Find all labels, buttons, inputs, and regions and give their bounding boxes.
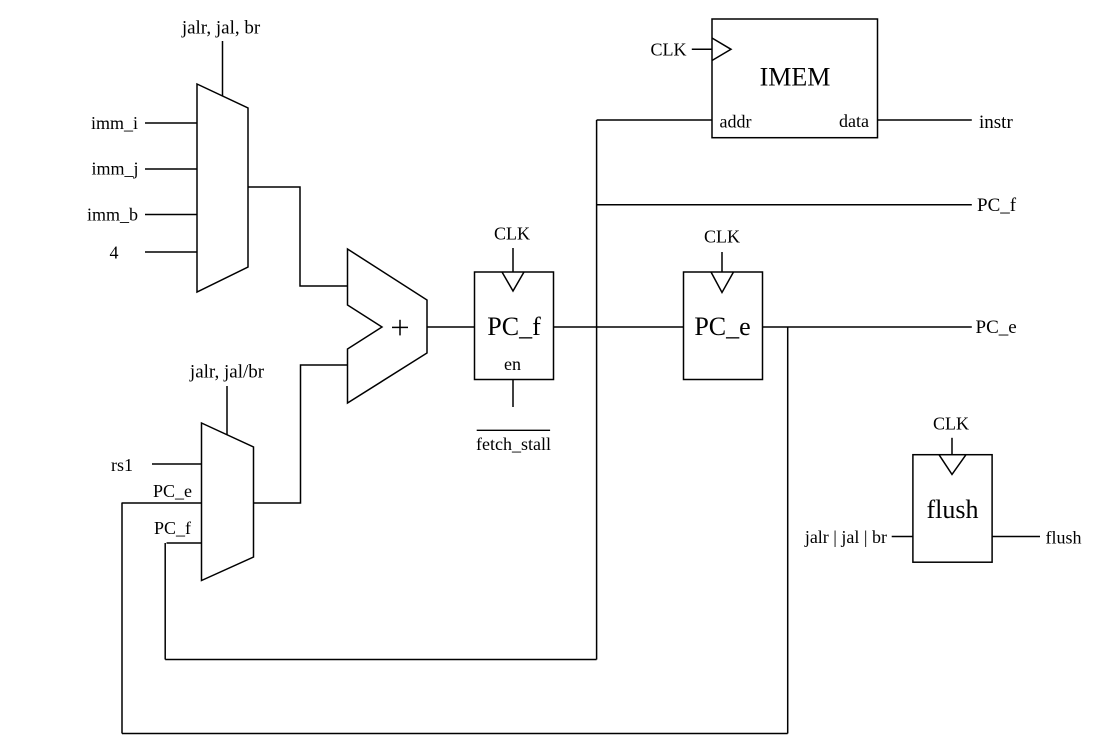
svg-text:CLK: CLK bbox=[494, 224, 530, 244]
memory IMEM box bbox=[712, 19, 878, 138]
wire constant-4 input stub bbox=[145, 251, 197, 253]
svg-text:jalr, jal, br: jalr, jal, br bbox=[181, 18, 261, 39]
wire CLK to IMEM bbox=[692, 48, 712, 50]
adder U1 bbox=[348, 249, 428, 403]
wire PC_f feedback bottom horizontal bbox=[165, 659, 596, 661]
svg-text:4: 4 bbox=[110, 243, 119, 263]
mux M1 (immediate select mux) bbox=[197, 84, 248, 292]
svg-text:PC_e: PC_e bbox=[153, 481, 192, 501]
svg-text:jalr, jal/br: jalr, jal/br bbox=[189, 362, 265, 383]
fetch_stall overline bbox=[477, 429, 550, 431]
register flush box bbox=[913, 455, 992, 563]
wire en input below PC_f bbox=[512, 380, 514, 408]
svg-text:imm_j: imm_j bbox=[91, 159, 138, 179]
adder plus sign vertical stroke bbox=[399, 320, 401, 336]
svg-text:rs1: rs1 bbox=[111, 455, 133, 475]
wire jalr|jal|br input to flush bbox=[892, 536, 913, 538]
wire PC_f register output to PC_e register input bbox=[554, 326, 684, 328]
register PC_e box bbox=[684, 272, 763, 380]
wire CLK to flush bbox=[951, 438, 953, 455]
wire M2 output to adder bottom input bbox=[254, 365, 348, 503]
wire M1 output to adder top input bbox=[248, 187, 348, 286]
wire PC_f net to IMEM addr bbox=[597, 119, 712, 121]
register PC_e clock notch bbox=[711, 272, 734, 293]
svg-text:PC_f: PC_f bbox=[154, 518, 191, 538]
svg-text:addr: addr bbox=[720, 112, 752, 132]
wire CLK to PC_f bbox=[512, 248, 514, 272]
svg-text:imm_b: imm_b bbox=[87, 205, 138, 225]
wire adder output to PC_f register bbox=[427, 326, 475, 328]
wire M2 select (jalr, jal/br) bbox=[226, 386, 228, 435]
wire imm_j input stub bbox=[145, 168, 197, 170]
wire CLK to PC_e bbox=[721, 252, 723, 272]
wire imm_b input stub bbox=[145, 214, 197, 216]
register flush clock notch bbox=[939, 455, 966, 475]
svg-text:fetch_stall: fetch_stall bbox=[476, 434, 551, 454]
svg-text:en: en bbox=[504, 354, 521, 374]
wire rs1 input stub bbox=[152, 463, 202, 465]
svg-text:flush: flush bbox=[1046, 528, 1082, 548]
svg-text:flush: flush bbox=[927, 495, 979, 524]
svg-text:CLK: CLK bbox=[933, 414, 969, 434]
svg-text:jalr | jal | br: jalr | jal | br bbox=[804, 527, 887, 547]
register PC_f clock notch bbox=[502, 272, 524, 291]
wire PC_e register output bbox=[763, 326, 972, 328]
wire imm_i input stub bbox=[145, 122, 197, 124]
svg-text:data: data bbox=[839, 111, 869, 131]
svg-text:PC_e: PC_e bbox=[694, 312, 750, 341]
svg-text:CLK: CLK bbox=[651, 40, 687, 60]
register PC_f box bbox=[475, 272, 554, 380]
mux M2 (PC source select mux) bbox=[202, 423, 254, 581]
wire M1 select (jalr, jal, br) bbox=[222, 41, 224, 96]
wire PC_f net vertical bbox=[596, 120, 598, 660]
wire IMEM data output (instr) bbox=[878, 119, 972, 121]
memory IMEM clock triangle bbox=[712, 38, 731, 61]
wire PC_f input to M2 bbox=[167, 542, 202, 544]
svg-text:PC_f: PC_f bbox=[487, 312, 541, 341]
wire flush output bbox=[992, 536, 1040, 538]
svg-text:IMEM: IMEM bbox=[760, 63, 831, 92]
svg-text:instr: instr bbox=[979, 112, 1013, 133]
wire PC_e feedback riser to M2 bbox=[121, 503, 123, 734]
svg-text:CLK: CLK bbox=[704, 227, 740, 247]
wire PC_e feedback bottom horizontal bbox=[122, 733, 788, 735]
wire PC_f feedback riser to M2 bbox=[164, 543, 166, 660]
svg-text:PC_f: PC_f bbox=[977, 195, 1017, 216]
wire PC_f output branch bbox=[597, 204, 972, 206]
wire PC_e feedback vertical drop bbox=[787, 327, 789, 734]
svg-text:imm_i: imm_i bbox=[91, 113, 138, 133]
adder plus sign horizontal stroke bbox=[392, 326, 408, 328]
wire PC_e input to M2 bbox=[122, 502, 202, 504]
svg-text:PC_e: PC_e bbox=[976, 317, 1017, 338]
